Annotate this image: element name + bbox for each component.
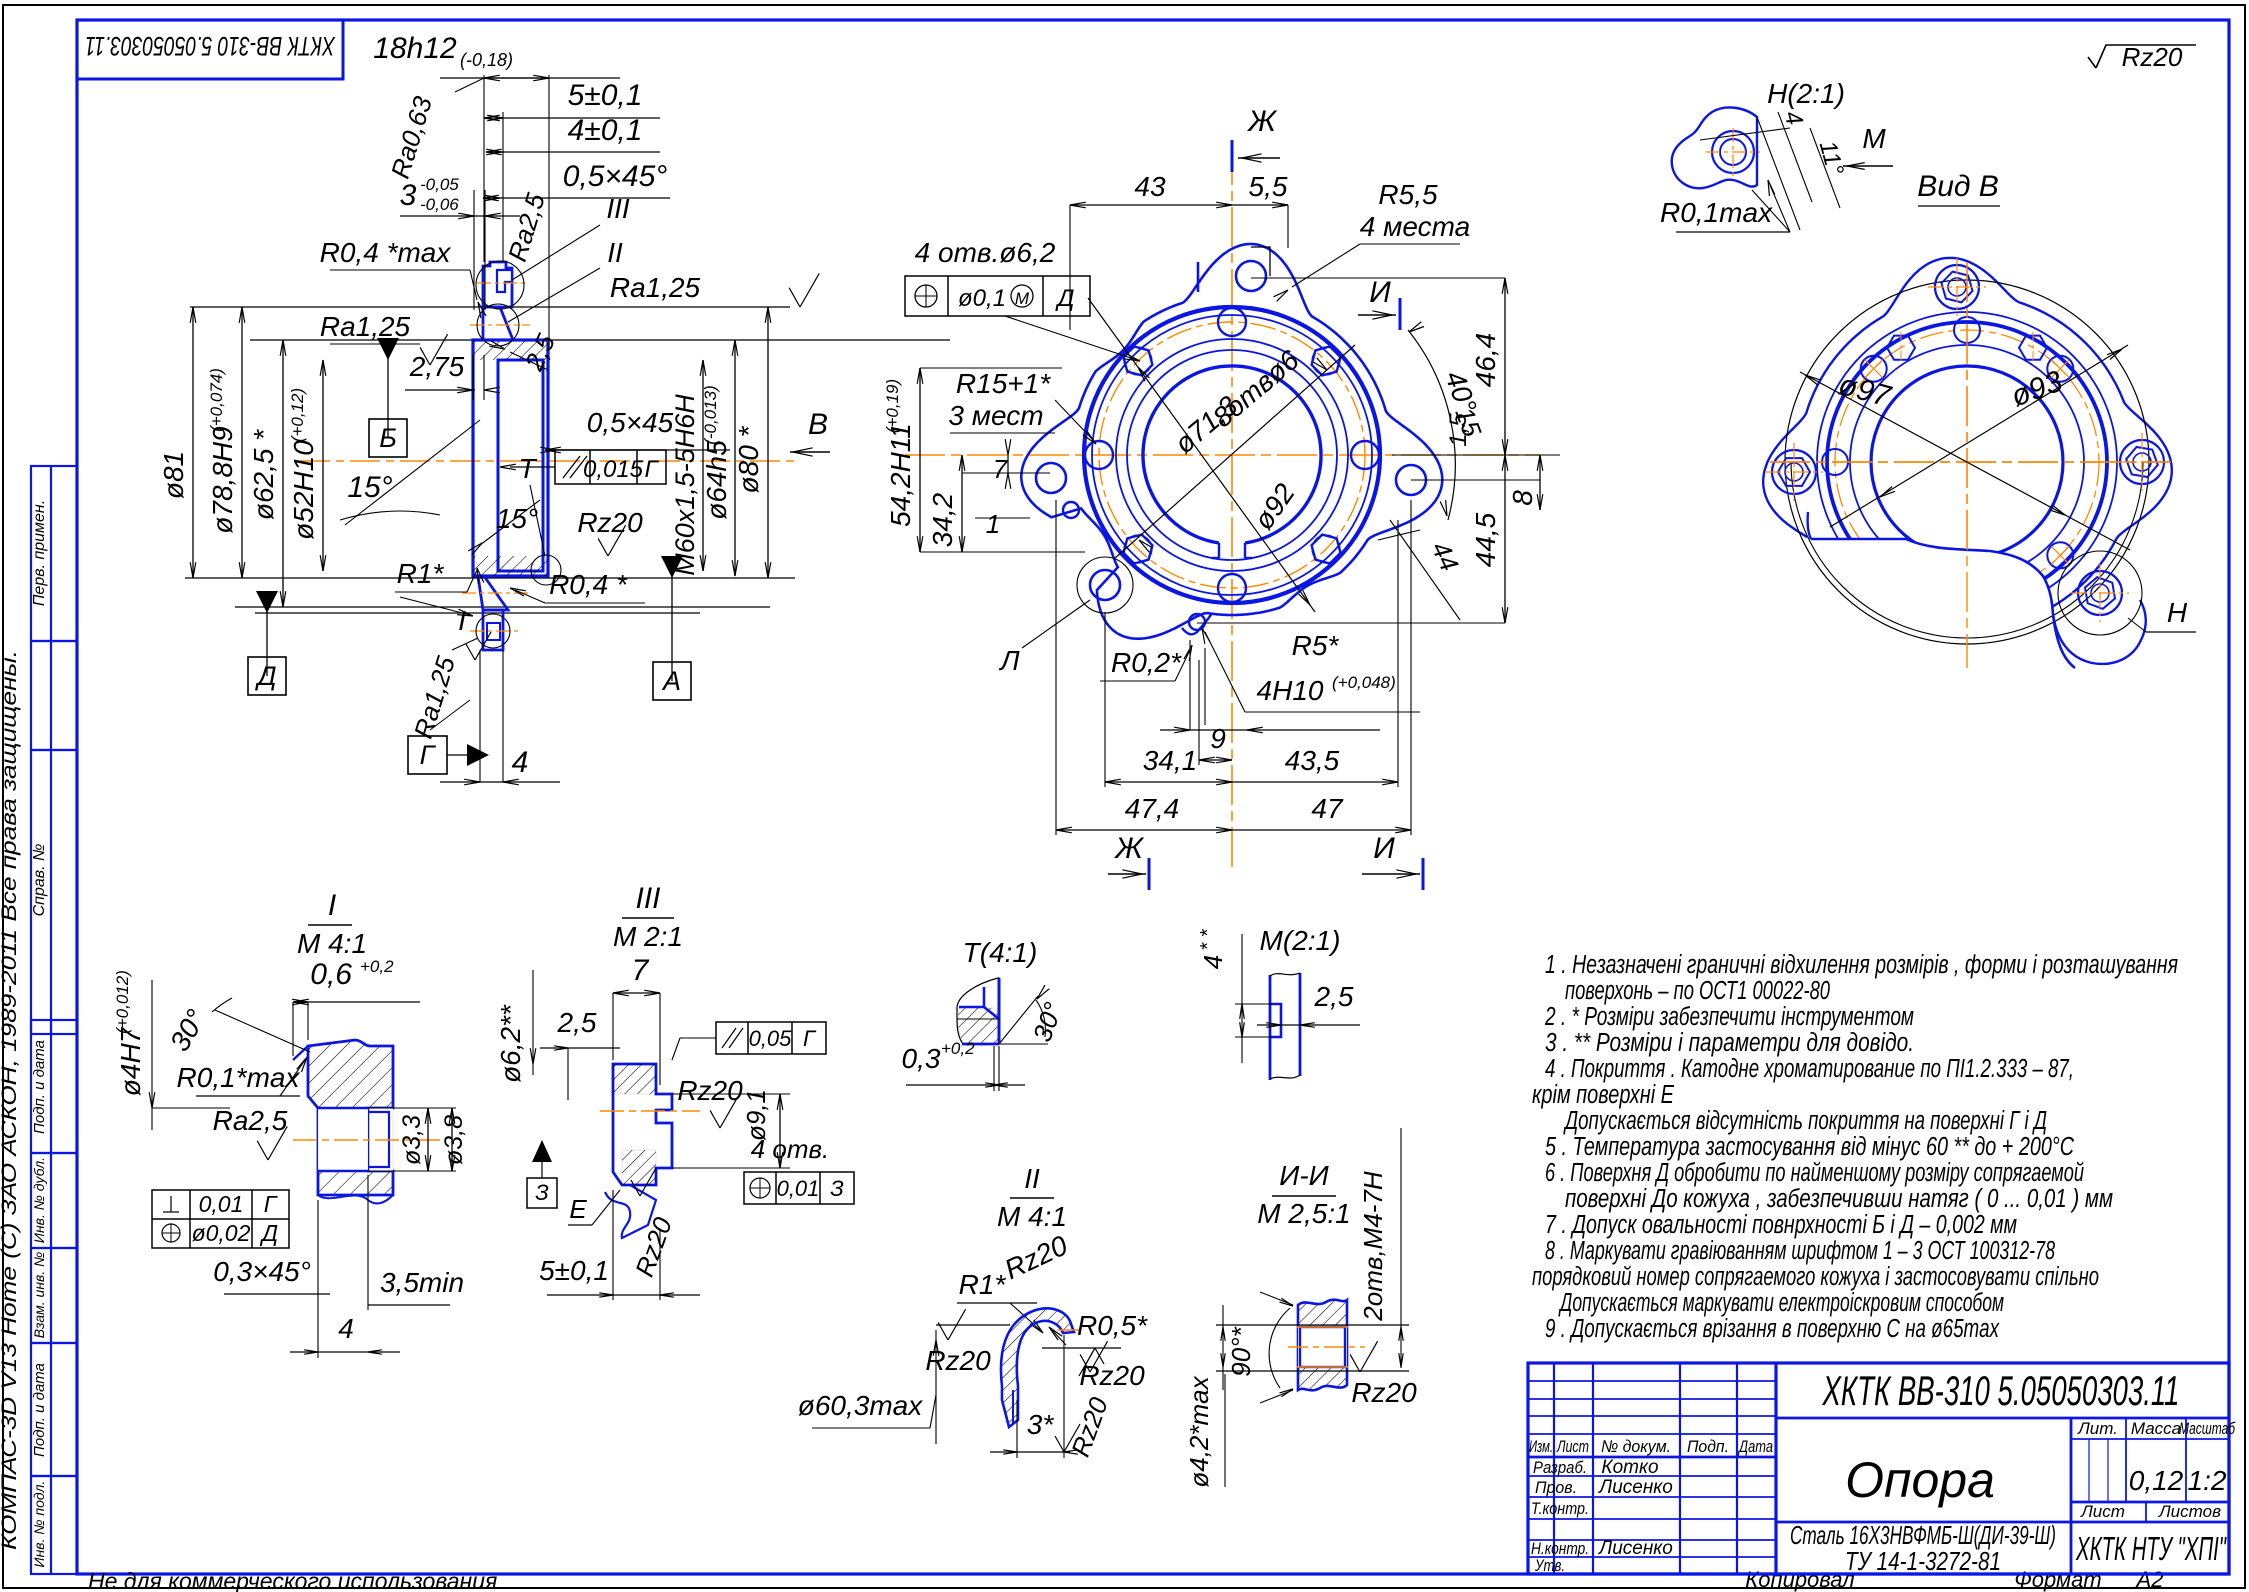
detail I break wave bottom: [318, 1195, 393, 1203]
svg-text:0,5×45°: 0,5×45°: [563, 160, 668, 193]
detail T wedge outline: [957, 978, 999, 1044]
parallelism tolerance frame: [555, 450, 666, 484]
svg-text:М 2:1: М 2:1: [613, 921, 683, 952]
vid B centerlines redrawn: [1966, 262, 1968, 668]
left view extension line top face y307: [190, 306, 790, 308]
svg-text:ø3,3: ø3,3: [398, 1115, 426, 1165]
svg-text:0,015: 0,015: [583, 456, 644, 483]
svg-text:ø81: ø81: [158, 451, 189, 499]
I-I hole walls blue: [1300, 1327, 1345, 1367]
detail II tail inner line: [1012, 1390, 1014, 1424]
flange circle r141: [1092, 315, 1372, 595]
svg-text:4: 4: [338, 1313, 354, 1344]
vid B hex bolt top: [1935, 265, 1979, 309]
detail I bore white strip: [318, 1108, 368, 1171]
bottom ear feature (detail I): [483, 610, 503, 650]
title block outer: [1528, 1363, 2229, 1574]
detail circle I: [476, 614, 510, 648]
detail III hatch top: [613, 1064, 656, 1094]
svg-text:И: И: [1373, 832, 1395, 865]
dim 4 line: [486, 151, 502, 153]
I-I block outline with breaks: [1298, 1300, 1347, 1391]
svg-text:Копировал: Копировал: [1745, 1567, 1854, 1592]
svg-text:(-0,013): (-0,013): [701, 385, 720, 445]
svg-text:4: 4: [1198, 955, 1228, 969]
svg-text:3 мест: 3 мест: [948, 400, 1043, 431]
hatch top lip: [473, 340, 548, 360]
svg-text:90°*: 90°*: [1226, 1326, 1256, 1376]
svg-text:ø64h5: ø64h5: [701, 440, 732, 520]
dim 54.2H11 vertical: [919, 368, 921, 552]
vid B cutaway white region: [1802, 520, 2080, 706]
right vertical dim 44.5: [1504, 455, 1506, 623]
lug hole left: [1036, 463, 1066, 493]
fi97 diagonal dimension: [1800, 372, 2130, 550]
svg-text:Не для коммерческого использов: Не для коммерческого использования: [88, 1568, 497, 1592]
vid B bore circle: [1871, 366, 2063, 558]
svg-text:Инв. № подл.: Инв. № подл.: [31, 1481, 47, 1568]
svg-text:-0,05: -0,05: [420, 175, 459, 194]
dim M60x1.5 vertical: [702, 360, 704, 571]
H detail slant dim lines: [1700, 128, 1790, 140]
svg-text:Г: Г: [644, 456, 659, 483]
ear II centerline: [470, 324, 530, 326]
svg-text:R1*: R1*: [397, 558, 445, 589]
svg-text:* *: * *: [1197, 928, 1219, 950]
bottom ear notch: [487, 623, 500, 640]
svg-text:Утв.: Утв.: [1534, 1556, 1565, 1575]
svg-text:I: I: [328, 889, 336, 922]
svg-text:Г: Г: [803, 1026, 817, 1051]
I-I left dim arrows: [1222, 1305, 1224, 1390]
svg-text:Подп. и дата: Подп. и дата: [31, 1363, 48, 1457]
vid B hex bolt bottom right: [2078, 571, 2122, 615]
detail III lower break: [605, 1185, 656, 1238]
svg-text:Подп.: Подп.: [1687, 1437, 1729, 1456]
svg-text:ø0,1: ø0,1: [958, 285, 1006, 312]
H detail centerlines: [1732, 128, 1734, 178]
svg-text:поверхонь – по ОСТ1 00022-80: поверхонь – по ОСТ1 00022-80: [1565, 977, 1830, 1005]
svg-text:0,5×45: 0,5×45: [587, 407, 674, 438]
svg-text:Ж: Ж: [1113, 832, 1144, 865]
svg-text:(+0,074): (+0,074): [207, 368, 226, 432]
svg-text:(+0,12): (+0,12): [288, 388, 307, 442]
svg-text:4 отв.: 4 отв.: [751, 1134, 830, 1164]
dim fi80 vertical: [767, 307, 769, 578]
svg-text:6 . Поверхня Д обробити по най: 6 . Поверхня Д обробити по найменшому ро…: [1545, 1159, 2084, 1187]
diagonal dim fi92: [1088, 298, 1315, 612]
detail circle II: [477, 304, 519, 346]
svg-text:4±0,1: 4±0,1: [568, 114, 643, 147]
vid B circle r150: [1817, 312, 2117, 612]
detail T blue edges: [998, 978, 1001, 1044]
dim 18h12 line: [484, 77, 549, 79]
arc dim 40 deg: [1408, 330, 1455, 520]
svg-text:Rz20: Rz20: [577, 507, 643, 538]
dim 5 line: [484, 117, 503, 119]
vid B orange bolt circle: [1835, 330, 2099, 594]
svg-text:9: 9: [1210, 723, 1226, 754]
svg-text:Rz20: Rz20: [1079, 1360, 1145, 1391]
svg-text:I: I: [458, 605, 466, 636]
I-I bottom plate line: [1216, 1370, 1409, 1372]
svg-text:III: III: [635, 882, 660, 915]
svg-text:Листов: Листов: [2158, 1502, 2221, 1521]
svg-text:8: 8: [1507, 490, 1538, 506]
dim 0.5x45 line: [483, 197, 500, 199]
svg-text:(+0,048): (+0,048): [1332, 673, 1396, 692]
svg-text:34,2: 34,2: [927, 492, 958, 547]
svg-text:15°: 15°: [496, 503, 538, 534]
datum B: [377, 338, 399, 360]
title block lit massa masshtab: [2071, 1438, 2229, 1440]
svg-text:М 4:1: М 4:1: [997, 1201, 1067, 1232]
svg-text:0,05: 0,05: [749, 1026, 793, 1051]
svg-text:0,01: 0,01: [199, 1191, 244, 1217]
svg-text:Ra2,5: Ra2,5: [213, 1105, 288, 1136]
svg-text:ø3,8: ø3,8: [440, 1115, 468, 1165]
left view extension line bottom inner y607: [235, 606, 770, 608]
svg-text:Лисенко: Лисенко: [1597, 1538, 1673, 1559]
svg-text:Масса: Масса: [2131, 1419, 2181, 1438]
svg-text:Пров.: Пров.: [1535, 1478, 1577, 1497]
svg-text:М60х1,5-5Н6Н: М60х1,5-5Н6Н: [670, 394, 700, 576]
svg-text:Опора: Опора: [1845, 1452, 1995, 1508]
dim 3 line: [400, 215, 520, 217]
flange outer contour with 4 lugs: [1021, 244, 1442, 639]
svg-text:4 отв.ø6,2: 4 отв.ø6,2: [915, 237, 1056, 268]
svg-text:ø52H10: ø52H10: [288, 440, 319, 540]
left column box empty below: [31, 641, 77, 750]
svg-text:1 . Незазначені граничні відхи: 1 . Незазначені граничні відхилення розм…: [1545, 951, 2178, 979]
svg-text:4 места: 4 места: [1360, 211, 1470, 242]
detail I chamfer lines: [293, 1046, 308, 1060]
svg-text:R0,5*: R0,5*: [1077, 1310, 1148, 1341]
svg-text:(+0,19): (+0,19): [883, 379, 902, 433]
vid B cutaway left edge: [1808, 512, 1811, 539]
svg-text:43: 43: [1134, 171, 1166, 202]
svg-text:З: З: [830, 1176, 844, 1201]
detail T 30deg lines and arc: [999, 1043, 1048, 1045]
dim fi78.8 vertical: [241, 307, 243, 578]
detail I fi3.3 fi3.8 dims: [427, 1108, 429, 1171]
detail I groove white region: [368, 1108, 393, 1171]
left column box Podp i data 2: [31, 1343, 77, 1476]
svg-text:ХКТК ВВ-310 5.05050303.11: ХКТК ВВ-310 5.05050303.11: [85, 31, 336, 61]
svg-text:З: З: [535, 1180, 549, 1205]
I-I top plate line: [1216, 1324, 1409, 1326]
detail I part outline: [308, 1040, 393, 1195]
svg-text:И-И: И-И: [1279, 1160, 1329, 1191]
hatch bottom lip: [473, 556, 548, 576]
svg-text:Д: Д: [259, 1220, 278, 1246]
detail III position frame: [744, 1172, 854, 1204]
right vertical dim 46.4: [1504, 278, 1506, 455]
svg-text:М 2,5:1: М 2,5:1: [1257, 1198, 1350, 1229]
left view extension line bottom y613: [255, 612, 700, 614]
lug hole bottom-left: [1090, 570, 1120, 600]
svg-text:2,5: 2,5: [557, 1007, 597, 1038]
detail III parallelism frame: [716, 1022, 826, 1054]
detail T hatch region: [958, 1008, 999, 1043]
circle r116: [1116, 339, 1348, 571]
top lug step line: [1251, 247, 1270, 276]
svg-text:R15+1*: R15+1*: [956, 368, 1051, 399]
svg-text:Ra1,25: Ra1,25: [610, 272, 701, 303]
svg-text:2 . * Розміри забезпечити інс: 2 . * Розміри забезпечити інструментом: [1544, 1003, 1914, 1031]
svg-text:Перв. примен.: Перв. примен.: [31, 500, 48, 606]
svg-text:№ докум.: № докум.: [1601, 1437, 1671, 1456]
svg-text:Rz20: Rz20: [925, 1345, 991, 1376]
dim fi64h5 vertical: [734, 340, 736, 576]
svg-text:Rz20: Rz20: [2122, 42, 2183, 72]
svg-text:ø4Н7: ø4Н7: [115, 1026, 146, 1096]
svg-text:Разраб.: Разраб.: [1533, 1458, 1587, 1477]
svg-text:ø60,3max: ø60,3max: [798, 1390, 923, 1421]
svg-text:47,4: 47,4: [1125, 793, 1180, 824]
svg-text:М: М: [1862, 123, 1886, 154]
flange bold circle r148: [1084, 307, 1380, 603]
svg-text:4Н10: 4Н10: [1257, 675, 1324, 706]
top-left stamp box: [77, 20, 343, 79]
left view extension line inner top y340: [250, 339, 950, 341]
I-I right dim arrows: [1399, 1327, 1401, 1341]
svg-text:R0,4 *: R0,4 *: [549, 569, 628, 600]
svg-text:Н: Н: [2167, 597, 2188, 628]
svg-text:Г: Г: [420, 740, 437, 770]
lug hole top: [1236, 261, 1266, 291]
svg-text:44,5: 44,5: [1470, 512, 1501, 567]
detail T thin mid line: [957, 1018, 999, 1020]
dim fi62.5 vertical: [282, 340, 284, 607]
svg-text:(+0,012): (+0,012): [113, 970, 132, 1034]
detail III hatch bottom: [622, 1150, 656, 1185]
center view horizontal centerline: [905, 454, 1540, 456]
extension verticals above part: [483, 75, 485, 262]
dim fi81 vertical: [192, 307, 194, 578]
svg-text:R0,1max: R0,1max: [1660, 197, 1773, 228]
svg-text:4 . Покриття . Катодне хромати: 4 . Покриття . Катодне хроматирование по…: [1545, 1055, 2074, 1083]
part inner cavity outline: [498, 360, 543, 571]
vid B second thin circle bottom arc: [1791, 462, 2143, 638]
dim 4H10 hole width: [1160, 729, 1380, 731]
leader from tolerance frame to hole: [1005, 316, 1137, 360]
svg-text:ø6,2**: ø6,2**: [495, 1004, 526, 1083]
detail T dim line: [906, 1084, 1025, 1086]
bore slot walls: [1218, 543, 1220, 558]
dim 5.5 top: [1232, 204, 1288, 206]
svg-text:R5*: R5*: [1292, 630, 1340, 661]
small hole near left lug: [1063, 502, 1079, 518]
dim 43 top: [1070, 204, 1232, 206]
svg-text:2,5: 2,5: [1314, 981, 1354, 1012]
svg-text:крім поверхні Е: крім поверхні Е: [1532, 1081, 1675, 1109]
detail M notch: [1270, 1004, 1281, 1037]
bottom ear centerline: [470, 630, 520, 632]
svg-text:ХКТК НТУ "ХПІ": ХКТК НТУ "ХПІ": [2075, 1530, 2226, 1567]
detail II left line and Rz20: [936, 1324, 1010, 1326]
right vertical dim 8: [1539, 455, 1541, 510]
svg-text:Г: Г: [264, 1191, 278, 1217]
detail M plate outline: [1270, 973, 1300, 1079]
detail I centerline: [293, 1139, 440, 1141]
svg-text:А: А: [661, 666, 681, 696]
title block doc number cell: [1776, 1417, 2229, 1420]
H detail blob outline: [1672, 107, 1757, 188]
svg-text:R0,1*max: R0,1*max: [177, 1062, 301, 1093]
svg-text:В: В: [808, 408, 828, 441]
svg-text:9 . Допускається врізання в по: 9 . Допускається врізання в поверхню С н…: [1545, 1315, 2000, 1343]
svg-text:II: II: [1024, 1163, 1040, 1194]
detail III part outline: [613, 1064, 672, 1185]
svg-text:ø78,8H9: ø78,8H9: [207, 426, 238, 533]
svg-text:1:2: 1:2: [2188, 1465, 2227, 1496]
svg-text:5,5: 5,5: [1249, 171, 1288, 202]
svg-text:-0,06: -0,06: [420, 195, 459, 214]
svg-text:1: 1: [986, 509, 1000, 539]
H detail hole outer: [1712, 131, 1754, 173]
svg-text:Лист: Лист: [2080, 1502, 2125, 1521]
svg-text:34,1: 34,1: [1143, 745, 1198, 776]
svg-text:Подп. и дата: Подп. и дата: [31, 1040, 48, 1134]
H detail hole inner: [1720, 139, 1746, 165]
circle r105: [1127, 350, 1337, 560]
detail circle T: [531, 555, 561, 585]
lug hole right: [1396, 465, 1426, 495]
svg-text:8 . Маркувати гравіюванням шри: 8 . Маркувати гравіюванням шрифтом 1 – 3…: [1545, 1237, 2056, 1265]
svg-text:порядковий номер сопрягаемого: порядковий номер сопрягаемого кожуха і з…: [1532, 1263, 2099, 1291]
vid B small hole 315 over cutaway: [2047, 542, 2073, 568]
part skirt inner wall line: [542, 360, 544, 571]
svg-text:М: М: [1015, 289, 1030, 308]
svg-text:КОМПАС-3D V13 Home (С) ЗАО АСК: КОМПАС-3D V13 Home (С) ЗАО АСКОН, 1989-2…: [0, 650, 21, 1550]
svg-text:Rz20: Rz20: [1351, 1377, 1417, 1408]
svg-text:ø62,5 *: ø62,5 *: [248, 429, 279, 520]
left column box Perv primenen: [31, 466, 77, 641]
left column box Vzam inv No: [31, 1248, 77, 1343]
svg-text:2отв,М4-7Н: 2отв,М4-7Н: [1358, 1171, 1388, 1322]
svg-text:Инв. № дубл.: Инв. № дубл.: [31, 1157, 47, 1243]
left column box Podp i data 1: [31, 1020, 77, 1153]
svg-text:Дата: Дата: [1737, 1437, 1773, 1456]
detail II hook outline: [1001, 1308, 1074, 1427]
vid B outer blue contour with lugs: [1763, 258, 2172, 630]
left view horizontal centerline: [300, 460, 795, 462]
svg-text:Допускається маркувати електро: Допускається маркувати електроіскровим с…: [1558, 1289, 2004, 1317]
diagonal dim 8 holes fi6 and fi71.3: [1115, 345, 1355, 558]
vid B circle r117: [1850, 345, 2084, 579]
svg-text:Вид В: Вид В: [1917, 170, 1999, 203]
svg-text:54,2H11: 54,2H11: [885, 423, 916, 527]
detail circle III: [476, 261, 524, 309]
svg-text:М 4:1: М 4:1: [297, 928, 367, 959]
svg-text:46,4: 46,4: [1470, 333, 1501, 388]
I-I orange thread lines: [1297, 1326, 1348, 1328]
svg-text:Лит.: Лит.: [2077, 1419, 2118, 1438]
ear II trapezoid: [483, 307, 513, 340]
vid B bold circle: [1827, 322, 2107, 602]
dim 34.2 vertical: [961, 455, 963, 552]
center view vertical centerline: [1231, 145, 1233, 868]
extension verticals below part: [479, 650, 481, 782]
svg-text:Л: Л: [998, 645, 1020, 676]
svg-text:Rz20: Rz20: [677, 1075, 743, 1106]
svg-text:Т: Т: [518, 453, 537, 484]
svg-text:Справ. №: Справ. №: [31, 844, 48, 917]
eight fastener holes fi6: [1351, 441, 1379, 469]
H detail circle: [2058, 551, 2142, 635]
svg-text:0,3×45°: 0,3×45°: [213, 1256, 311, 1287]
svg-text:Изм.: Изм.: [1529, 1437, 1553, 1456]
vid B small holes on bolt circle: [2047, 356, 2073, 382]
vid B hex bolt right: [2120, 440, 2164, 484]
title block left grid horizontals: [1528, 1380, 1776, 1382]
svg-text:Допускається відсутність покри: Допускається відсутність покриття на пов…: [1563, 1107, 2047, 1135]
svg-text:5±0,1: 5±0,1: [539, 1255, 609, 1286]
svg-text:3: 3: [400, 179, 417, 212]
svg-text:Д: Д: [254, 661, 276, 691]
left view extension line bottom face y578: [185, 577, 795, 579]
bottom transition centerline: [462, 592, 530, 594]
svg-text:ТУ 14-1-3272-81: ТУ 14-1-3272-81: [1845, 1546, 2001, 1576]
svg-text:R5,5: R5,5: [1378, 179, 1438, 210]
title block list listov row: [2145, 1502, 2147, 1522]
detail I groove inner lines: [367, 1108, 370, 1171]
detail I tolerance frames: [152, 1190, 289, 1248]
left column box Inv No dubl: [31, 1153, 77, 1248]
svg-text:4: 4: [512, 746, 529, 779]
title block left grid verticals: [1553, 1363, 1555, 1574]
svg-text:0,3: 0,3: [902, 1043, 941, 1074]
bolt circle orange r133: [1099, 322, 1365, 588]
svg-text:5±0,1: 5±0,1: [568, 79, 643, 112]
svg-text:И: И: [1369, 276, 1391, 309]
svg-text:7: 7: [632, 954, 650, 987]
svg-text:0,6: 0,6: [310, 958, 352, 991]
svg-text:Ra1,25: Ra1,25: [320, 311, 411, 342]
svg-text:Б: Б: [379, 423, 397, 453]
svg-text:3 . ** Розміри і параметри дл: 3 . ** Розміри і параметри для довідо.: [1545, 1029, 1914, 1057]
svg-text:R1*: R1*: [959, 1269, 1007, 1300]
svg-text:+0,2: +0,2: [941, 1039, 975, 1058]
left column box Sprav No: [31, 750, 77, 1034]
svg-text:R0,4 *max: R0,4 *max: [320, 237, 452, 268]
small hole 4H10 bottom: [1189, 614, 1205, 630]
svg-text:R0,2*: R0,2*: [1111, 647, 1182, 678]
svg-text:III: III: [606, 193, 630, 224]
vid B bottom right lug outline: [2053, 600, 2146, 664]
svg-text:ХКТК ВВ-310 5.05050303.11: ХКТК ВВ-310 5.05050303.11: [1822, 1367, 2180, 1414]
detail II orange tick: [1058, 1329, 1080, 1331]
bore circle r89 with bottom slot: [1143, 366, 1321, 543]
svg-text:А2: А2: [2135, 1567, 2164, 1592]
left column box Inv No podl: [31, 1476, 77, 1574]
datum Z detail III: [532, 1140, 552, 1162]
svg-text:(-0,18): (-0,18): [460, 50, 513, 70]
top ear feature (detail III): [483, 262, 512, 307]
small tab around 4H10 hole: [1182, 613, 1212, 634]
top ear centerline: [477, 282, 527, 284]
I-I centerline orange: [1288, 1346, 1365, 1348]
title block name cell Opora: [2070, 1418, 2073, 1574]
I-I hole white: [1298, 1327, 1347, 1367]
top ear notch white plus: [497, 270, 512, 292]
svg-text:ø80 *: ø80 *: [733, 425, 764, 493]
vid B cutaway blue boundary: [1811, 539, 2075, 668]
svg-text:ø4,2*max: ø4,2*max: [1184, 1375, 1214, 1487]
svg-text:Е: Е: [569, 1194, 587, 1224]
svg-text:ø0,02: ø0,02: [192, 1220, 251, 1246]
